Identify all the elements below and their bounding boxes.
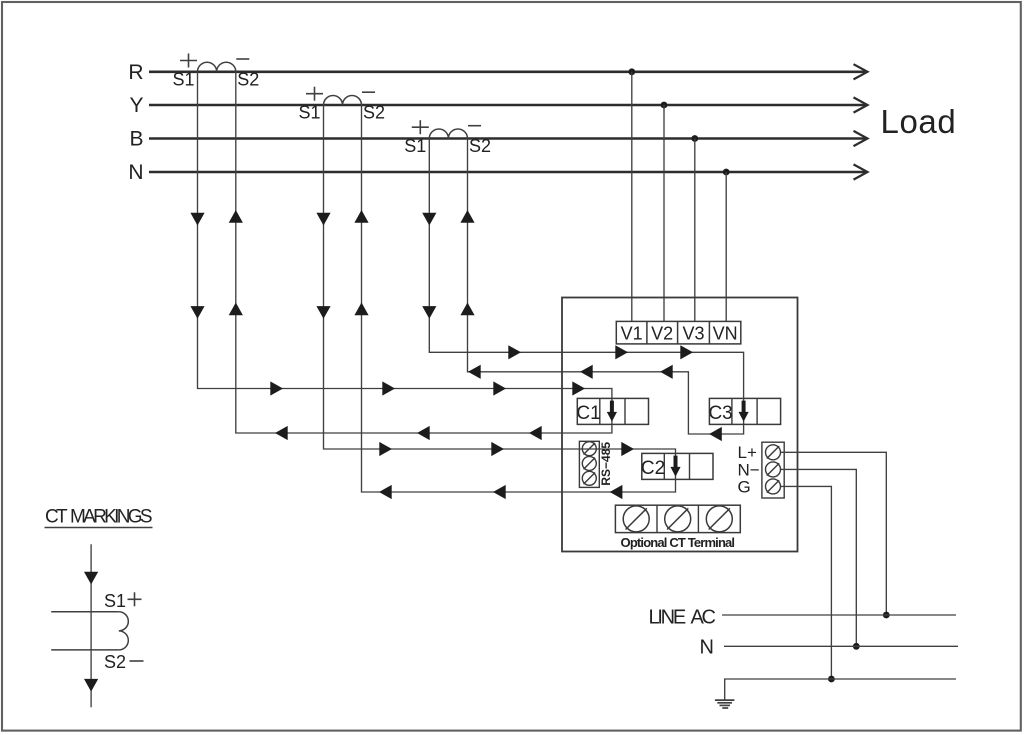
legend plus mark [128, 592, 142, 606]
CT R pin S2 label [237, 70, 259, 90]
wire LINE AC [722, 614, 956, 616]
CT terminal block C1 [576, 398, 648, 424]
CT Y polarity plus mark [306, 87, 323, 101]
junction dot V1 tap [628, 68, 635, 75]
svg-text:Y: Y [129, 94, 143, 117]
wire V2 voltage sense [663, 105, 665, 321]
junction dot VN tap [723, 169, 730, 176]
CT R-phase current transformer winding [198, 62, 236, 72]
CT Y pin S1 label [298, 103, 320, 123]
legend wire through CT [90, 544, 92, 707]
legend minus mark [130, 660, 144, 662]
wire phase line N to Load [149, 164, 868, 179]
svg-text:N: N [700, 637, 714, 659]
CT B pin S2 label [469, 136, 491, 156]
CT Y-phase current transformer winding [324, 96, 362, 106]
RS-485 terminal block [579, 441, 599, 487]
svg-text:S2: S2 [469, 136, 491, 156]
node N label [700, 637, 714, 659]
svg-text:VN: VN [713, 323, 738, 343]
terminal L+ label [738, 443, 757, 462]
terminal V2 label [651, 323, 673, 343]
C3 current direction arrow [739, 401, 749, 422]
svg-text:C3: C3 [708, 403, 732, 424]
CT Y pin S2 label [363, 103, 385, 123]
legend flow arrow upper [84, 572, 98, 585]
node LINE AC label [649, 607, 717, 629]
svg-text:S1: S1 [298, 103, 320, 123]
wire VN voltage sense [725, 172, 727, 321]
wire N [724, 645, 958, 647]
svg-text:RS−485: RS−485 [599, 442, 613, 486]
ground symbol [715, 700, 735, 708]
legend CT primary bars [51, 612, 119, 650]
svg-text:S2: S2 [104, 652, 126, 672]
wire V1 voltage sense [631, 72, 633, 322]
wire CT Y secondary loop (S1 to C2 to S2) [324, 105, 676, 492]
wire earth run [725, 679, 956, 700]
RS-485 label [599, 442, 613, 486]
svg-text:S2: S2 [237, 70, 259, 90]
svg-text:LINE AC: LINE AC [649, 607, 717, 629]
svg-text:C1: C1 [576, 403, 600, 424]
CT B polarity plus mark [412, 120, 429, 134]
terminal strip V1 V2 V3 VN [616, 321, 741, 344]
terminal G label [738, 477, 751, 496]
svg-text:Load: Load [881, 103, 957, 140]
junction dot N [853, 643, 860, 650]
CT B-phase current transformer winding [429, 129, 467, 139]
wire N&#8722; to N [781, 469, 856, 646]
CT B pin S1 label [404, 136, 426, 156]
terminal VN label [713, 323, 738, 343]
svg-text:S2: S2 [363, 103, 385, 123]
svg-text:CT MARKINGS: CT MARKINGS [45, 507, 153, 528]
node Load label [881, 103, 957, 140]
svg-text:S1: S1 [404, 136, 426, 156]
svg-text:V3: V3 [682, 323, 704, 343]
legend pin S1 label [104, 591, 126, 611]
svg-text:C2: C2 [641, 458, 665, 479]
Optional CT Terminal caption [621, 535, 736, 550]
power terminal block [762, 442, 784, 498]
CT R polarity minus mark [236, 58, 249, 60]
node Y label [129, 94, 143, 117]
CT terminal block C3 [708, 398, 780, 424]
svg-text:V1: V1 [621, 323, 643, 343]
svg-text:S1: S1 [172, 70, 194, 90]
terminal V1 label [621, 323, 643, 343]
CT R pin S1 label [172, 70, 194, 90]
node R label [128, 61, 143, 84]
junction dot V3 tap [691, 135, 698, 142]
svg-text:R: R [128, 61, 143, 84]
flow arrows on horizontal runs [270, 345, 722, 499]
CT Y polarity minus mark [362, 91, 375, 93]
flow arrows on CT leads [190, 210, 474, 319]
svg-text:N: N [128, 161, 143, 184]
svg-text:G: G [738, 477, 751, 496]
junction dot ground [828, 676, 835, 683]
wire phase line Y to Load [149, 97, 868, 112]
legend flow arrow lower [84, 679, 98, 692]
wire phase line R to Load [149, 64, 868, 79]
terminal N&#8722; label [738, 460, 760, 479]
svg-text:Optional CT Terminal: Optional CT Terminal [621, 535, 736, 550]
CT B polarity minus mark [468, 125, 481, 127]
C2 current direction arrow [670, 456, 680, 477]
wire L+ to LINE AC [781, 452, 886, 615]
CT terminal block C2 [641, 453, 713, 479]
svg-text:S1: S1 [104, 591, 126, 611]
svg-text:V2: V2 [651, 323, 673, 343]
CT R polarity plus mark [180, 54, 197, 68]
legend CT MARKINGS title [45, 507, 153, 528]
svg-text:B: B [129, 128, 143, 151]
C1 current direction arrow [607, 401, 617, 422]
node N label [128, 161, 143, 184]
wire V3 voltage sense [694, 139, 696, 322]
meter U1 enclosure [562, 298, 798, 552]
junction dot LINE AC [883, 612, 890, 619]
wire CT B secondary loop (S1 to C3 to S2) [429, 139, 743, 435]
optional CT terminal block [615, 505, 740, 532]
wire phase line B to Load [149, 131, 868, 146]
legend CT coil [119, 612, 129, 650]
wire G to ground [781, 486, 831, 679]
wire CT R secondary loop (S1 to C1 to S2) [198, 72, 612, 433]
terminal V3 label [682, 323, 704, 343]
node B label [129, 128, 143, 151]
legend pin S2 label [104, 652, 126, 672]
junction dot V2 tap [661, 102, 668, 109]
